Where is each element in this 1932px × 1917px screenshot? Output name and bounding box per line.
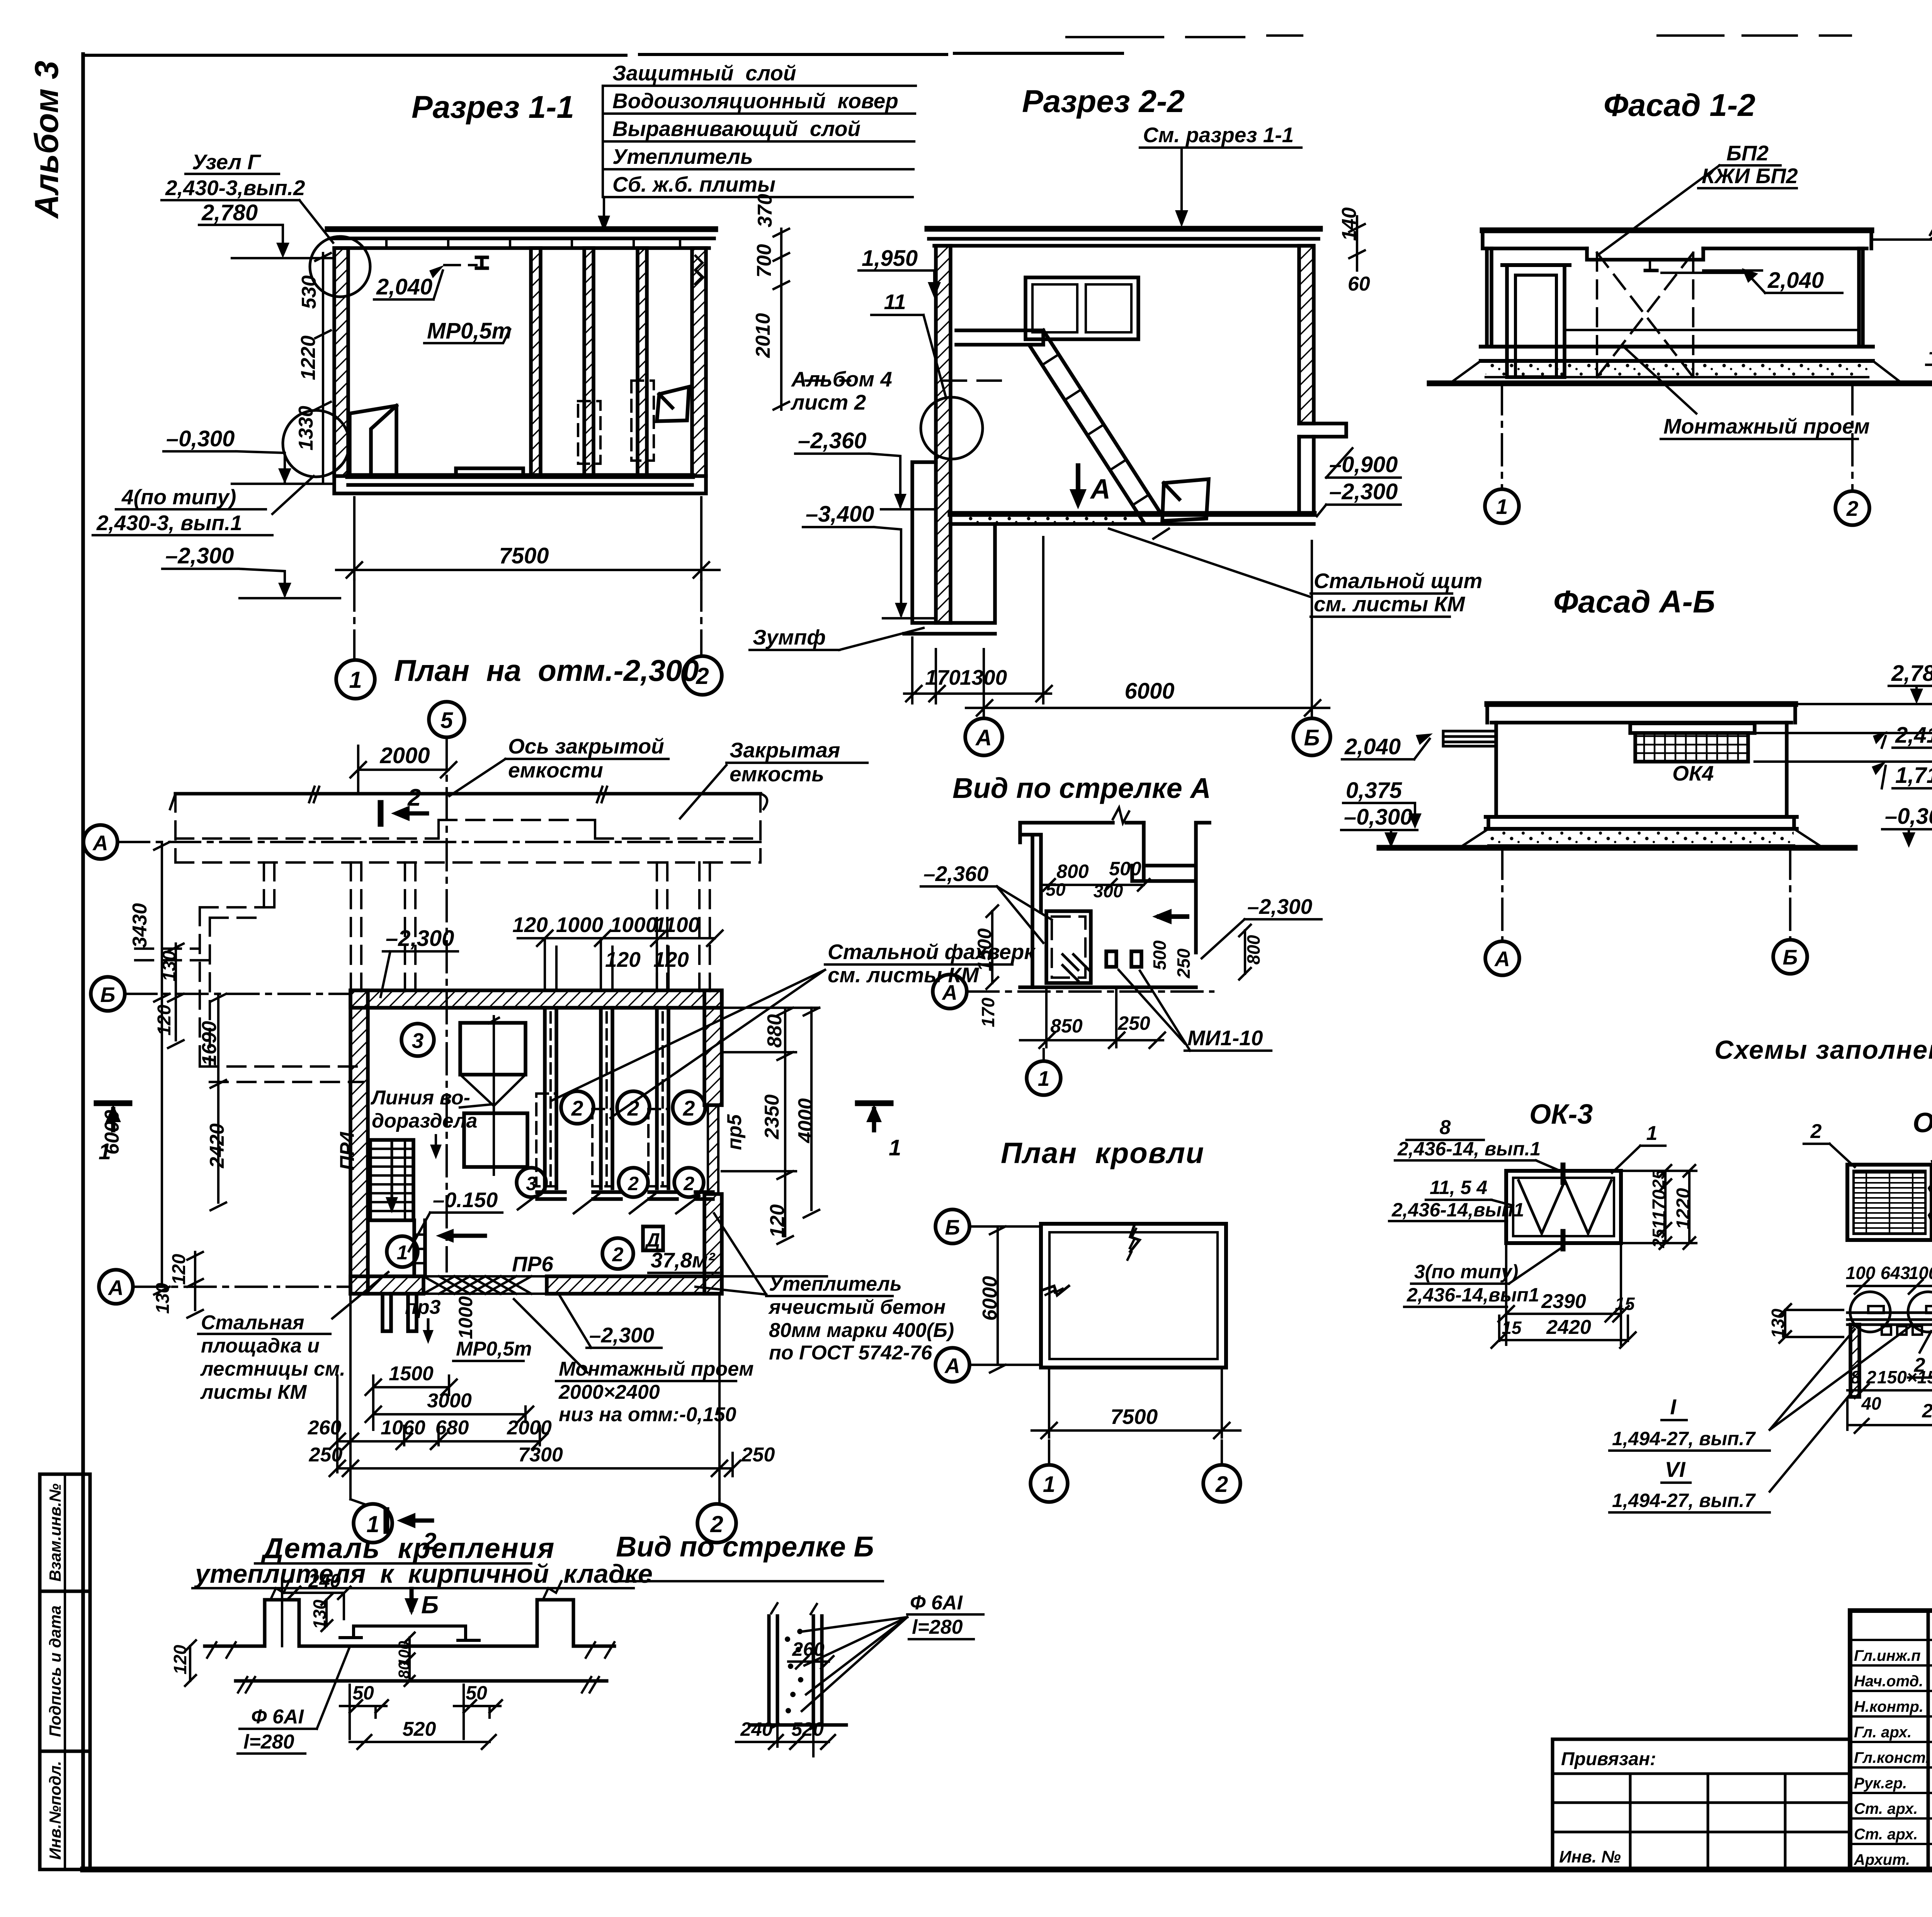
svg-text:Сб. ж.б. плиты: Сб. ж.б. плиты — [612, 172, 776, 196]
left dim chain 3430/6000 — [154, 842, 170, 1294]
svg-text:2: 2 — [407, 784, 421, 811]
door — [1507, 265, 1565, 377]
window OK4 grille — [1635, 733, 1748, 762]
svg-text:I: I — [1670, 1395, 1677, 1419]
svg-text:емкость: емкость — [730, 762, 824, 786]
window in section 2-2 — [1026, 277, 1138, 339]
svg-text:170: 170 — [925, 665, 961, 689]
svg-text:25: 25 — [1649, 1229, 1668, 1248]
svg-text:120: 120 — [154, 1005, 175, 1036]
svg-text:130: 130 — [153, 1283, 173, 1314]
svg-text:530: 530 — [298, 276, 320, 309]
axis bubble 5 — [429, 702, 464, 737]
rebar dots — [785, 1629, 803, 1713]
svg-text:Н.контр.: Н.контр. — [1854, 1698, 1923, 1715]
svg-text:1: 1 — [349, 667, 362, 693]
break marks — [1041, 1224, 1139, 1295]
dashed L region left — [135, 907, 363, 1082]
name rows — [1850, 1640, 1932, 1844]
svg-text:А: А — [941, 980, 957, 1004]
svg-text:0,375: 0,375 — [1346, 778, 1402, 803]
svg-text:Линия во-: Линия во- — [370, 1087, 470, 1109]
svg-text:низ на отм:-0,150: низ на отм:-0,150 — [559, 1403, 736, 1426]
svg-text:Монтажный проем: Монтажный проем — [1663, 414, 1870, 438]
top/bottom anchor ticks — [1561, 1165, 1566, 1249]
horizontal band lines — [1565, 329, 1859, 331]
svg-text:3430: 3430 — [129, 903, 151, 948]
svg-text:2,040: 2,040 — [1344, 734, 1401, 759]
svg-text:Разрез 2-2: Разрез 2-2 — [1022, 84, 1185, 119]
plinth band — [1486, 817, 1797, 829]
svg-text:2,430-3, вып.1: 2,430-3, вып.1 — [96, 511, 242, 535]
svg-text:37,8м²: 37,8м² — [651, 1248, 716, 1272]
left dim chain 130/120 — [168, 944, 184, 1048]
svg-text:1500: 1500 — [389, 1362, 434, 1385]
svg-text:2: 2 — [683, 1096, 695, 1120]
wall section detail — [170, 1570, 614, 1754]
svg-text:2000×2400: 2000×2400 — [558, 1381, 660, 1403]
svg-text:А: А — [1494, 947, 1510, 971]
axis bubble A — [1485, 941, 1519, 975]
svg-text:7500: 7500 — [1111, 1405, 1158, 1429]
svg-text:Ст. арх.: Ст. арх. — [1854, 1800, 1918, 1817]
svg-text:1: 1 — [1496, 495, 1508, 519]
left margin stamp column — [40, 1474, 90, 1869]
svg-text:А: А — [944, 1354, 960, 1378]
inner pit dashed — [1052, 917, 1085, 978]
room bottom wall hatched w/ PR6 opening — [350, 1276, 423, 1294]
I-beam symbol under roof — [1645, 260, 1657, 270]
svg-text:50: 50 — [1046, 879, 1066, 900]
room position bubbles — [401, 1024, 434, 1056]
right dim chain 4000 — [804, 1008, 819, 1218]
arrow from list to roof — [603, 197, 605, 226]
svg-text:120: 120 — [512, 913, 548, 937]
svg-text:130: 130 — [159, 951, 180, 981]
thick arrow left — [1159, 914, 1187, 919]
svg-text:1: 1 — [1646, 1122, 1658, 1145]
svg-text:240: 240 — [740, 1718, 773, 1740]
svg-text:Монтажный проем: Монтажный проем — [559, 1358, 754, 1380]
svg-text:250: 250 — [741, 1444, 775, 1466]
floor slab — [348, 473, 692, 479]
svg-text:Фасад 1-2: Фасад 1-2 — [1604, 88, 1755, 123]
svg-text:3: 3 — [526, 1173, 537, 1194]
svg-text:3: 3 — [412, 1029, 424, 1053]
svg-text:1170: 1170 — [1649, 1189, 1670, 1230]
svg-text:Привязан:: Привязан: — [1561, 1749, 1656, 1769]
svg-text:2,410: 2,410 — [1895, 723, 1932, 748]
svg-text:680: 680 — [435, 1417, 469, 1439]
svg-text:120: 120 — [766, 1204, 789, 1238]
zumpf pit left — [904, 462, 995, 634]
fasad A-B roof band — [1487, 701, 1795, 707]
svg-text:Утеплитель: Утеплитель — [612, 145, 753, 168]
axis bubble 1 — [336, 660, 375, 699]
roof plan rect — [1041, 1224, 1226, 1368]
svg-text:1330: 1330 — [295, 406, 317, 451]
svg-text:2,040: 2,040 — [1767, 268, 1824, 293]
svg-text:Б: Б — [100, 983, 116, 1007]
svg-text:11: 11 — [884, 290, 906, 314]
svg-text:2: 2 — [612, 1243, 624, 1266]
svg-text:5: 5 — [440, 708, 453, 733]
svg-text:Вид по стрелке Б: Вид по стрелке Б — [616, 1531, 874, 1563]
svg-text:250: 250 — [1173, 948, 1194, 978]
svg-text:Альбом 4: Альбом 4 — [791, 367, 892, 391]
svg-text:520: 520 — [791, 1718, 824, 1740]
interior column post 3 — [631, 248, 654, 476]
svg-text:2: 2 — [1215, 1472, 1228, 1497]
svg-text:Взам.инв.№: Взам.инв.№ — [46, 1483, 64, 1582]
svg-text:А: А — [975, 725, 992, 750]
svg-text:8: 8 — [1440, 1116, 1451, 1139]
svg-text:1: 1 — [889, 1135, 901, 1160]
right wall below ledge — [1299, 437, 1314, 514]
section 1-1 right wall (hatched) — [692, 248, 706, 476]
svg-text:Б: Б — [1783, 945, 1798, 969]
svg-text:1000: 1000 — [556, 913, 604, 937]
svg-text:370: 370 — [754, 194, 776, 228]
section 2-2 right wall hatched — [1299, 246, 1314, 424]
svg-text:Б: Б — [421, 1591, 439, 1619]
small floor block — [456, 468, 523, 476]
svg-text:–0.150: –0.150 — [433, 1188, 498, 1212]
svg-text:2,430-3,вып.2: 2,430-3,вып.2 — [165, 176, 305, 200]
svg-text:Схемы заполнения оконных проем: Схемы заполнения оконных проемов — [1714, 1035, 1932, 1065]
axis bubble 1 roof — [1031, 1465, 1068, 1502]
svg-text:25: 25 — [1649, 1170, 1668, 1189]
sheet frame left border — [81, 54, 85, 1869]
svg-text:240: 240 — [308, 1570, 341, 1592]
svg-text:Рук.гр.: Рук.гр. — [1854, 1775, 1907, 1792]
svg-text:ПР4: ПР4 — [336, 1131, 359, 1170]
room right wall lower hatched — [704, 1194, 722, 1294]
svg-text:Архит.: Архит. — [1854, 1851, 1910, 1868]
svg-text:6000: 6000 — [101, 1110, 123, 1155]
svg-text:ПР6: ПР6 — [512, 1252, 553, 1276]
small base mark right — [696, 1192, 713, 1199]
detail callout circle top-left (Uzel G) — [310, 236, 370, 297]
fasad 1-2 body walls — [1487, 248, 1863, 347]
svg-text:6000: 6000 — [1124, 679, 1174, 704]
svg-text:–2,360: –2,360 — [798, 428, 866, 453]
svg-text:1: 1 — [1043, 1472, 1055, 1497]
svg-text:2350: 2350 — [761, 1094, 783, 1140]
axis bubble B — [1293, 718, 1330, 755]
axis bubble 2 fasad12 — [1835, 491, 1869, 525]
svg-text:100: 100 — [1909, 1263, 1932, 1283]
svg-text:лестницы см.: лестницы см. — [200, 1358, 345, 1380]
svg-text:Ф 6АI: Ф 6АI — [251, 1706, 304, 1728]
svg-text:7500: 7500 — [499, 543, 549, 568]
interior column post 2 — [578, 248, 600, 476]
svg-text:листы КМ: листы КМ — [200, 1381, 307, 1403]
svg-text:2: 2 — [1914, 1354, 1925, 1376]
svg-text:1100: 1100 — [654, 913, 700, 937]
axis bubble B — [1773, 940, 1807, 974]
axis bubble A roof — [935, 1348, 969, 1382]
bottom edge — [1020, 985, 1196, 989]
fachwerk post 2 — [592, 1008, 621, 1199]
svg-text:4000: 4000 — [794, 1098, 817, 1143]
svg-text:А: А — [107, 1276, 124, 1300]
extension verticals bottom — [337, 1294, 733, 1499]
svg-text:11, 5 4: 11, 5 4 — [1430, 1177, 1487, 1198]
svg-text:1,494-27, вып.7: 1,494-27, вып.7 — [1612, 1490, 1756, 1511]
building footing bottom — [334, 476, 706, 493]
svg-text:120: 120 — [653, 947, 689, 971]
OK-3 frame — [1506, 1171, 1621, 1243]
svg-text:520: 520 — [403, 1718, 436, 1740]
axis B bubble left — [91, 977, 125, 1011]
ground line — [1430, 381, 1932, 386]
svg-text:см. листы КМ: см. листы КМ — [1314, 592, 1465, 616]
svg-text:120: 120 — [605, 947, 641, 971]
svg-text:2000: 2000 — [379, 743, 430, 768]
tilted square detail in 2-2 — [1162, 479, 1209, 521]
svg-text:60: 60 — [1348, 273, 1370, 295]
svg-text:ячеистый бетон: ячеистый бетон — [768, 1296, 946, 1318]
svg-text:МР0,5т: МР0,5т — [456, 1338, 532, 1360]
svg-text:–3,400: –3,400 — [806, 502, 874, 527]
MI1-10 small items — [1106, 951, 1116, 967]
svg-text:500: 500 — [1109, 858, 1141, 879]
svg-text:Стальной щит: Стальной щит — [1314, 569, 1482, 593]
svg-text:2: 2 — [1846, 497, 1859, 520]
svg-text:лист 2: лист 2 — [790, 390, 866, 414]
stair flight diagonal — [1030, 330, 1161, 522]
svg-text:40: 40 — [1861, 1393, 1881, 1414]
window OK4 top bar — [1630, 723, 1755, 733]
svg-text:пр5: пр5 — [723, 1114, 746, 1150]
svg-text:Нач.отд.: Нач.отд. — [1854, 1673, 1923, 1690]
D room mark — [643, 1226, 663, 1250]
svg-text:Ф 6АI: Ф 6АI — [910, 1592, 963, 1614]
room left wall hatched — [350, 990, 368, 1294]
svg-text:2: 2 — [683, 1173, 694, 1194]
svg-text:–2,300: –2,300 — [1329, 479, 1398, 504]
speckle foundation — [1488, 830, 1794, 845]
anchor rod — [354, 1626, 466, 1640]
svg-text:1: 1 — [1038, 1067, 1050, 1090]
B arrow — [410, 1589, 414, 1609]
svg-text:–2,360: –2,360 — [923, 862, 989, 886]
svg-text:–0,300: –0,300 — [1344, 805, 1412, 830]
svg-text:Альбом 3: Альбом 3 — [28, 61, 65, 219]
sheet frame top border (broken scan line) — [83, 53, 1122, 55]
axis bubble 2 — [683, 656, 722, 695]
svg-text:1000: 1000 — [610, 913, 658, 937]
svg-text:Ось закрытой: Ось закрытой — [508, 734, 664, 758]
svg-text:1220: 1220 — [1673, 1188, 1694, 1229]
fasad 1-2 roof band — [1483, 228, 1871, 233]
svg-text:дораздела: дораздела — [372, 1110, 477, 1132]
axis A top bubble — [83, 825, 117, 859]
svg-text:–2,300: –2,300 — [386, 926, 454, 951]
room right wall upper hatched — [704, 990, 722, 1105]
tilted square detail right — [657, 387, 689, 421]
dashed braces X — [1597, 253, 1693, 377]
svg-text:800: 800 — [1243, 935, 1264, 964]
section arrow A down — [1076, 466, 1080, 498]
axis bubble 1 fasad12 — [1485, 489, 1519, 523]
fachwerk post 3 — [648, 1008, 677, 1199]
svg-text:Вид по стрелке А: Вид по стрелке А — [952, 772, 1211, 804]
svg-text:1: 1 — [397, 1242, 408, 1264]
roof layers list — [598, 61, 916, 232]
svg-text:2420: 2420 — [1546, 1316, 1591, 1339]
svg-text:Стальной фахверк: Стальной фахверк — [828, 940, 1036, 964]
floor slab section 2-2 — [951, 511, 1314, 517]
svg-text:Стальная: Стальная — [201, 1311, 304, 1334]
svg-text:2,436-14,вып1: 2,436-14,вып1 — [1406, 1284, 1539, 1306]
left dim chain 370/700/2010 — [774, 229, 789, 410]
dashed pipe verticals to room — [264, 862, 710, 991]
svg-text:l=280: l=280 — [912, 1616, 963, 1638]
svg-text:Защитный слой: Защитный слой — [612, 61, 796, 85]
ground — [1379, 845, 1855, 851]
svg-text:2: 2 — [627, 1096, 639, 1120]
svg-text:МР0,5т: МР0,5т — [427, 318, 512, 344]
crane hook symbol — [476, 257, 487, 268]
right dim chains OK-3 — [1660, 1165, 1671, 1249]
svg-text:2010: 2010 — [752, 313, 774, 358]
svg-text:2,780: 2,780 — [1891, 661, 1932, 686]
callout circles — [1850, 1292, 1890, 1332]
left dim chain 1690/2420 — [211, 994, 226, 1210]
svg-text:Д: Д — [645, 1229, 660, 1251]
body — [1496, 723, 1787, 817]
svg-text:–0,300: –0,300 — [1929, 339, 1932, 364]
axis line 5 vertical dash-dot — [446, 737, 448, 1271]
roof notch BP2 beam — [1587, 248, 1703, 260]
svg-text:по ГОСТ 5742-76: по ГОСТ 5742-76 — [769, 1342, 932, 1364]
section mark 2 bottom — [384, 1510, 389, 1531]
section 2-2 roof slab — [927, 226, 1320, 232]
stair landing — [956, 330, 1043, 345]
bubble 1 vid — [1027, 1061, 1061, 1095]
svg-text:2350: 2350 — [1922, 1400, 1932, 1422]
section mark 1 right — [858, 1101, 891, 1106]
svg-text:План на отм.-2,300: План на отм.-2,300 — [394, 653, 699, 687]
dim 7500 bottom — [336, 497, 719, 580]
svg-text:А: А — [92, 831, 108, 855]
svg-text:VI: VI — [1665, 1457, 1686, 1482]
posts below — [1850, 1325, 1859, 1397]
interior hopper rects — [460, 1023, 526, 1075]
svg-text:ОК-4: ОК-4 — [1913, 1107, 1932, 1138]
svg-text:7300: 7300 — [518, 1444, 563, 1466]
svg-text:l=280: l=280 — [243, 1731, 294, 1753]
left grille — [1847, 1165, 1932, 1240]
base lines — [205, 1645, 614, 1648]
svg-text:1000: 1000 — [455, 1296, 476, 1339]
svg-text:–2,300: –2,300 — [589, 1323, 655, 1347]
svg-text:Выравнивающий слой: Выравнивающий слой — [612, 117, 861, 141]
svg-text:3(по типу): 3(по типу) — [1414, 1261, 1518, 1283]
svg-text:Б: Б — [945, 1215, 960, 1239]
svg-text:Узел Г: Узел Г — [192, 150, 261, 174]
svg-text:Гл.конст.: Гл.конст. — [1854, 1749, 1930, 1766]
svg-text:См. разрез 1-1: См. разрез 1-1 — [1143, 123, 1294, 147]
privyazan box — [1553, 1739, 1850, 1869]
svg-text:ОК4: ОК4 — [1672, 761, 1714, 785]
section mark 2 top — [378, 803, 384, 824]
axis A top line — [118, 841, 760, 843]
svg-text:2,040: 2,040 — [376, 274, 432, 299]
svg-text:120: 120 — [169, 1254, 189, 1285]
left dim chain 530/1220/1330 — [315, 253, 331, 483]
interior column post 1 — [531, 248, 541, 476]
svg-text:Инв. №: Инв. № — [1559, 1847, 1621, 1866]
fachwerk post 1 — [536, 1008, 565, 1199]
section 1-1 roof slab — [328, 226, 715, 232]
right dim chain 880/2350/120 — [722, 1008, 827, 1276]
axis A bubble — [933, 975, 967, 1009]
axis bubble 2 roof — [1203, 1465, 1240, 1502]
axis bubble A — [965, 718, 1002, 755]
level line albom — [806, 379, 1005, 382]
upper walls — [1020, 823, 1144, 987]
left dim chain 120/130 bottom — [187, 1252, 203, 1318]
OK-3 truss zigzag — [1519, 1180, 1611, 1233]
svg-text:4(по типу): 4(по типу) — [121, 485, 236, 509]
svg-text:2,780: 2,780 — [201, 200, 258, 225]
svg-text:ОК-3: ОК-3 — [1529, 1099, 1593, 1130]
svg-text:2: 2 — [571, 1096, 583, 1120]
svg-text:Гл. арх.: Гл. арх. — [1854, 1724, 1912, 1741]
svg-text:Разрез 1-1: Разрез 1-1 — [412, 90, 574, 125]
svg-text:Гл.инж.п: Гл.инж.п — [1854, 1647, 1921, 1664]
svg-text:емкости: емкости — [508, 758, 603, 782]
folded door leaf bottom-left — [350, 406, 396, 476]
vid po strelke B detail — [736, 1592, 983, 1756]
svg-text:МИ1-10: МИ1-10 — [1187, 1026, 1263, 1050]
svg-text:643: 643 — [1881, 1263, 1910, 1283]
svg-text:100: 100 — [1846, 1263, 1876, 1283]
break squiggle between — [1929, 1161, 1932, 1231]
svg-text:170: 170 — [978, 997, 998, 1027]
svg-text:880: 880 — [764, 1014, 786, 1048]
brick teeth — [265, 1600, 573, 1646]
svg-text:Зумпф: Зумпф — [753, 625, 826, 649]
svg-text:2: 2 — [1810, 1120, 1822, 1143]
svg-text:800: 800 — [1056, 861, 1089, 882]
svg-text:Водоизоляционный ковер: Водоизоляционный ковер — [612, 89, 898, 113]
section 2-2 left wall hatched — [936, 246, 951, 623]
right dim stack — [1755, 704, 1932, 762]
svg-text:пр3: пр3 — [405, 1296, 441, 1318]
svg-text:1,950: 1,950 — [862, 246, 918, 271]
room top wall hatched — [350, 990, 722, 1008]
svg-text:1220: 1220 — [297, 335, 320, 380]
svg-text:2390: 2390 — [1541, 1290, 1586, 1313]
name columns verticals — [1928, 1611, 1932, 1869]
main stamp outer — [1850, 1611, 1932, 1869]
svg-text:500: 500 — [1150, 940, 1170, 970]
sill section — [1847, 1313, 1932, 1325]
inner pit solid rect — [1046, 911, 1091, 983]
svg-text:Ст. арх.: Ст. арх. — [1854, 1826, 1918, 1843]
svg-text:1690: 1690 — [198, 1021, 221, 1066]
section 1-1 left wall (hatched) — [334, 248, 348, 476]
axis A bottom bubble left — [99, 1270, 133, 1304]
axis bubbles 1 2 bottom of plan — [354, 1504, 392, 1543]
vent pipe left — [1443, 731, 1496, 746]
svg-text:2420: 2420 — [206, 1123, 228, 1169]
tank dashed lines — [175, 794, 760, 862]
